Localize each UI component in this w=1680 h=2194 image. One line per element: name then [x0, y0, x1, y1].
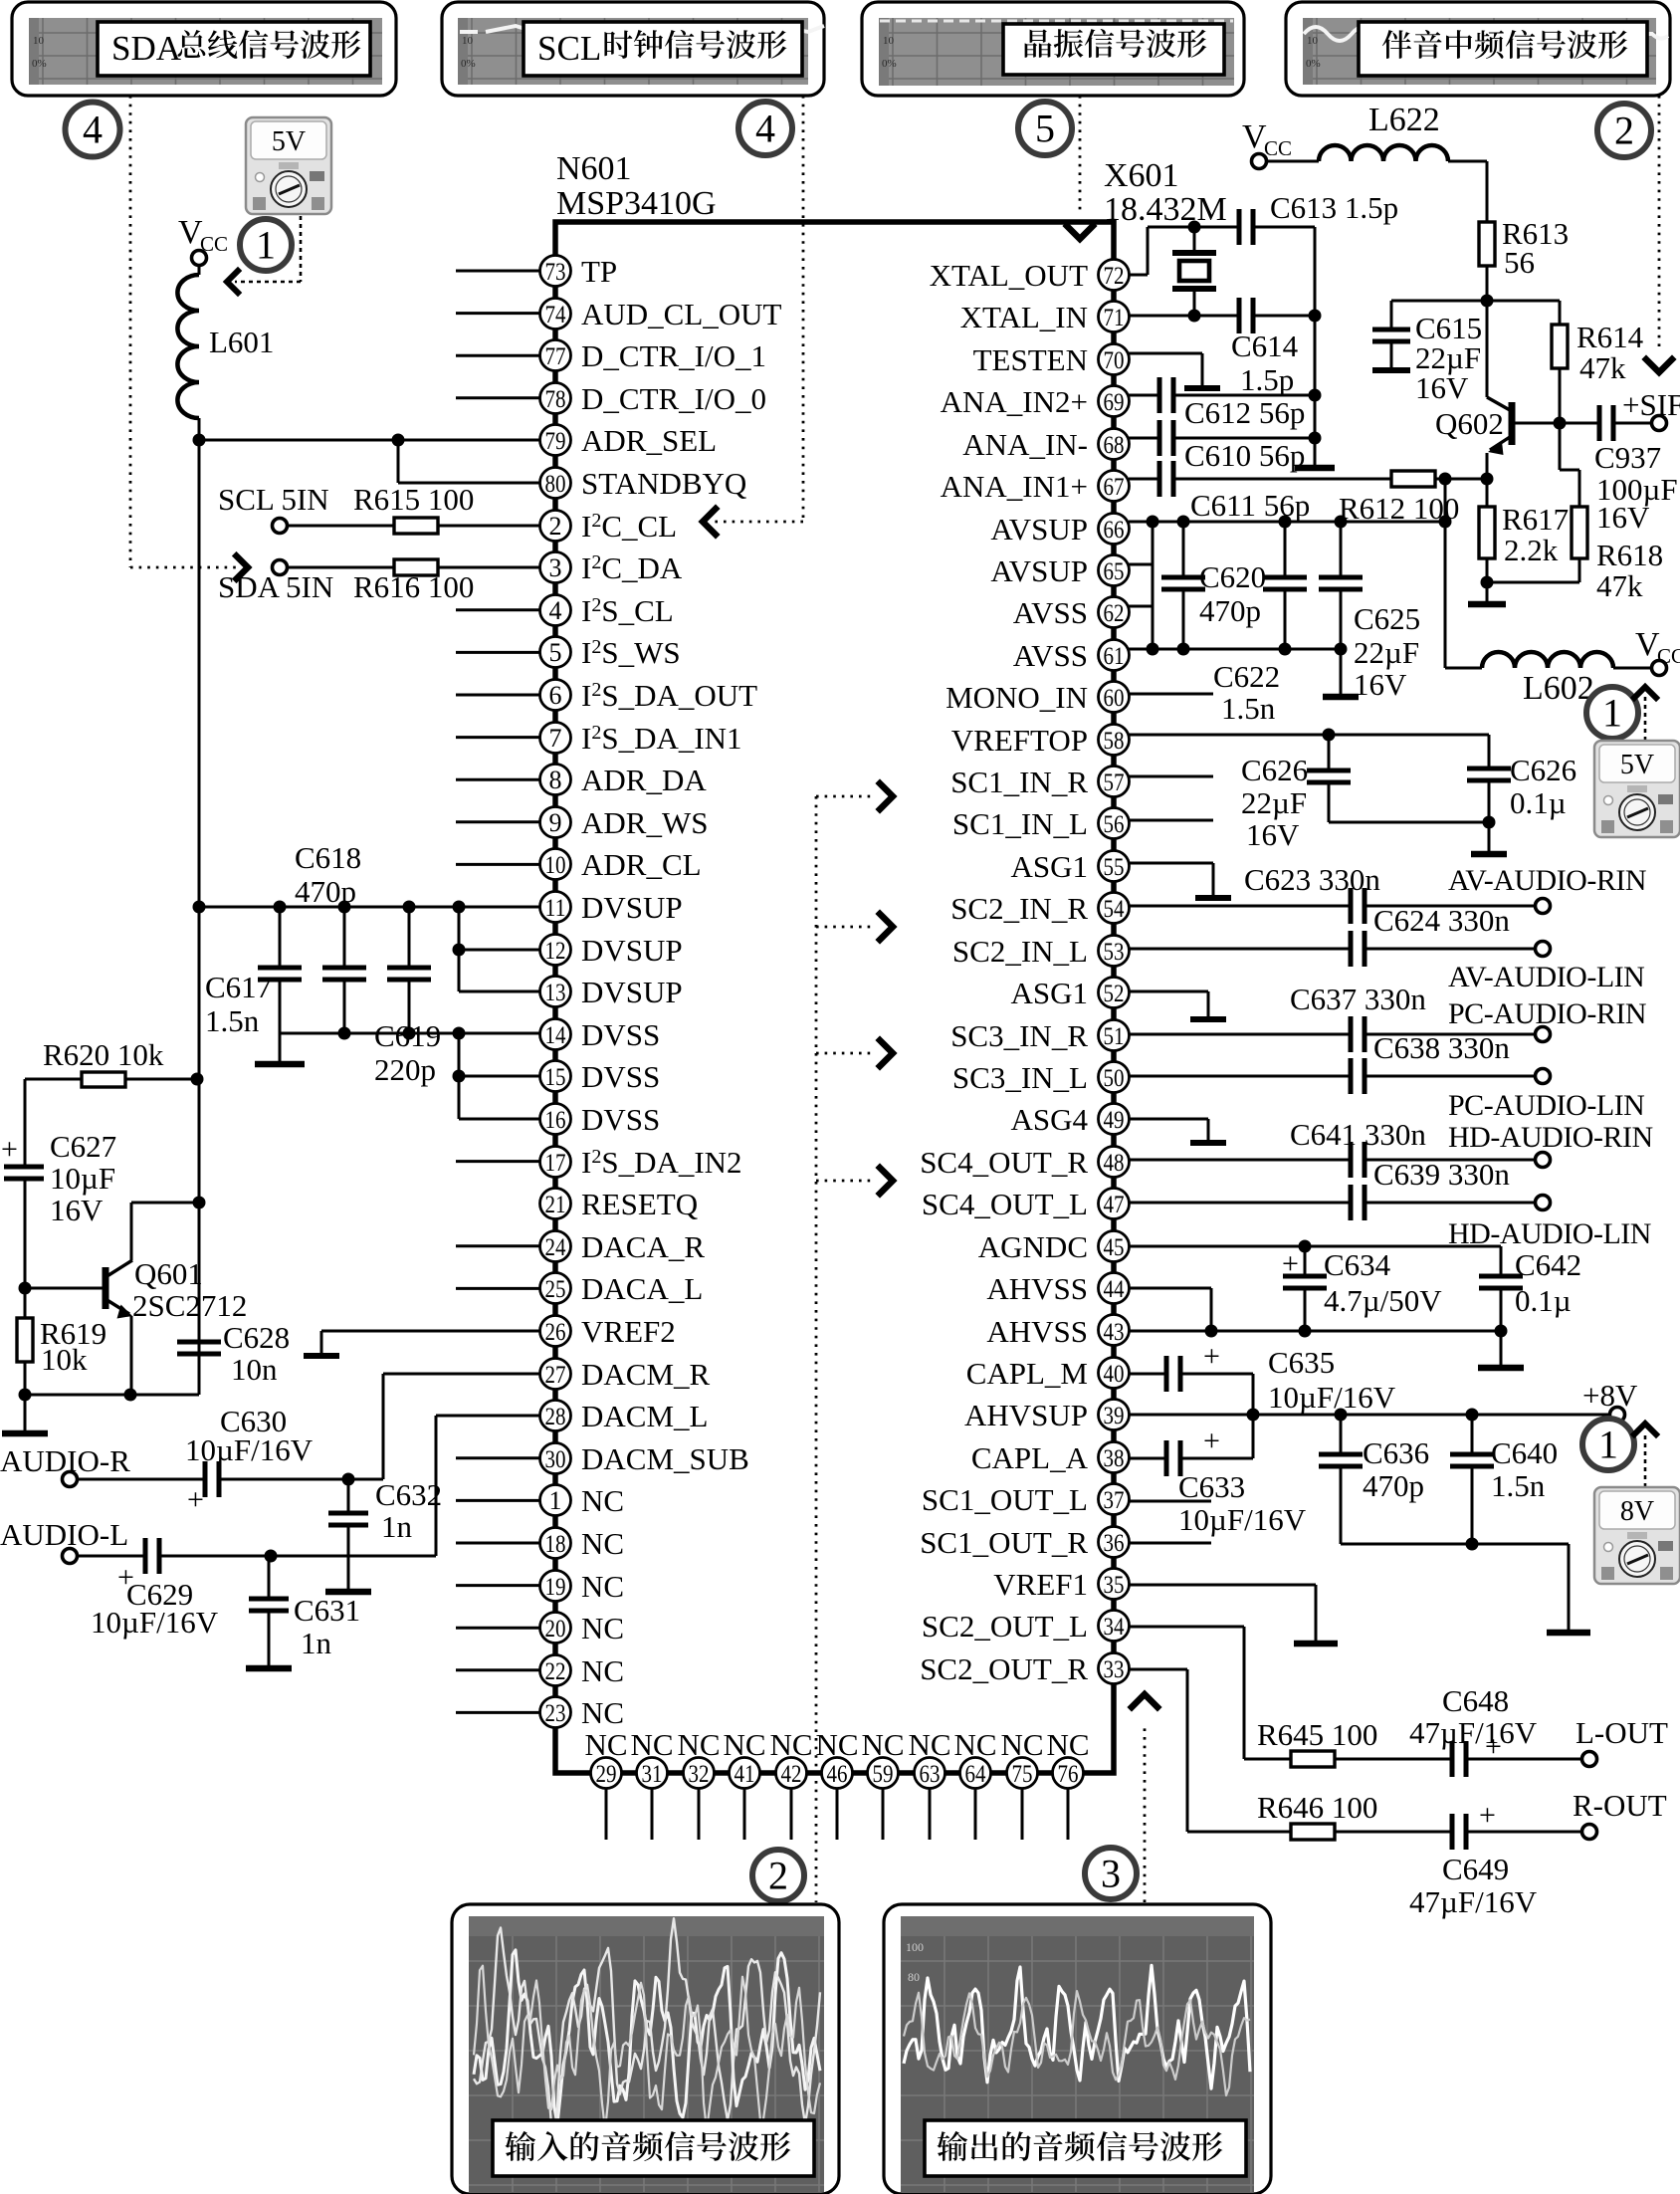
pin 3 I2C_DA (left) — [540, 550, 683, 585]
capacitor C649 47uF/16V (polarized) — [1409, 1799, 1581, 1919]
svg-text:SC1_IN_L: SC1_IN_L — [952, 806, 1088, 841]
capacitor C632 1n — [325, 1477, 442, 1592]
svg-text:17: 17 — [545, 1150, 566, 1177]
wire: left bias column — [24, 1079, 27, 1167]
capacitor C638 330n — [1129, 1030, 1535, 1094]
pin 72 XTAL_OUT (right) — [930, 258, 1130, 293]
svg-text:45: 45 — [1104, 1234, 1125, 1261]
svg-text:C640: C640 — [1491, 1435, 1558, 1470]
svg-text:I2S_DA_IN1: I2S_DA_IN1 — [581, 721, 742, 756]
svg-text:31: 31 — [642, 1761, 663, 1788]
svg-text:16V: 16V — [1415, 370, 1469, 405]
svg-text:56: 56 — [1104, 811, 1125, 838]
output terminal AV-AUDIO-RIN — [1448, 864, 1646, 914]
svg-text:70: 70 — [1104, 347, 1125, 374]
svg-text:16: 16 — [545, 1107, 566, 1134]
svg-text:AVSUP: AVSUP — [990, 512, 1088, 547]
svg-text:SC3_IN_R: SC3_IN_R — [950, 1018, 1088, 1053]
pin 79 ADR_SEL (left) — [540, 423, 718, 458]
svg-text:STANDBYQ: STANDBYQ — [581, 466, 746, 501]
svg-text:5V: 5V — [1620, 750, 1654, 780]
svg-text:5: 5 — [1035, 107, 1055, 151]
svg-text:NC: NC — [1046, 1727, 1089, 1762]
svg-text:ASG4: ASG4 — [1010, 1102, 1088, 1137]
svg-text:NC: NC — [581, 1569, 624, 1604]
svg-text:15: 15 — [545, 1064, 566, 1091]
capacitor C639 330n — [1129, 1157, 1535, 1220]
svg-text:22: 22 — [545, 1658, 566, 1685]
callout number 1 (8V meter) — [1582, 1419, 1634, 1470]
svg-text:C623 330n: C623 330n — [1244, 862, 1380, 897]
svg-text:I2S_DA_OUT: I2S_DA_OUT — [581, 678, 757, 713]
resistor R616 100 — [288, 559, 539, 604]
pin 41 NC (bottom) — [723, 1727, 765, 1840]
svg-text:68: 68 — [1104, 432, 1125, 459]
svg-text:72: 72 — [1104, 263, 1125, 290]
svg-text:1n: 1n — [381, 1509, 413, 1544]
pin 43 AHVSS (right) — [986, 1314, 1129, 1349]
pin 2 I2C_CL (left) — [540, 509, 678, 544]
svg-text:+: + — [1479, 1799, 1496, 1832]
svg-text:R645 100: R645 100 — [1257, 1717, 1377, 1752]
wire: pin 56 stub — [1129, 819, 1213, 822]
pin 63 NC (bottom) — [908, 1727, 950, 1840]
svg-text:RESETQ: RESETQ — [581, 1187, 698, 1221]
svg-text:47k: 47k — [1579, 350, 1626, 385]
callout number 5 (crystal scope) — [1018, 102, 1072, 155]
ground (Q602 emitter) — [1468, 582, 1506, 604]
svg-text:C633: C633 — [1178, 1469, 1245, 1504]
wire: pin 34 SC2_OUT_L to output filter — [1129, 1627, 1291, 1759]
wire: to pin 27 DACM_R — [383, 1374, 539, 1479]
pin 74 AUD_CL_OUT (left) — [456, 297, 782, 331]
wire: pin 66 AVSUP row — [1129, 516, 1452, 529]
svg-text:63: 63 — [920, 1761, 941, 1788]
svg-text:D_CTR_I/O_1: D_CTR_I/O_1 — [581, 338, 766, 373]
svg-text:CC: CC — [1657, 644, 1680, 668]
svg-text:1.5p: 1.5p — [1240, 362, 1294, 397]
svg-text:52: 52 — [1104, 981, 1125, 1007]
svg-text:C626: C626 — [1241, 753, 1308, 787]
svg-text:+: + — [1203, 1340, 1220, 1373]
svg-text:MSP3410G: MSP3410G — [556, 185, 717, 222]
svg-text:12: 12 — [545, 938, 566, 965]
svg-text:NC: NC — [677, 1727, 720, 1762]
resistor R612 100 — [1339, 471, 1487, 526]
wire+ground: C636/C640 bottoms — [1341, 1538, 1590, 1634]
pin 46 NC (bottom) — [815, 1727, 858, 1840]
svg-text:40: 40 — [1104, 1361, 1125, 1388]
svg-text:0.1µ: 0.1µ — [1510, 785, 1567, 820]
callout number 2 (SIF scope) — [1597, 104, 1651, 157]
pin 17 I2S_DA_IN2 (left) — [456, 1145, 742, 1180]
svg-text:10: 10 — [545, 852, 566, 879]
svg-text:76: 76 — [1058, 1761, 1079, 1788]
svg-text:26: 26 — [545, 1319, 566, 1346]
capacitor C628 10n — [177, 1320, 290, 1395]
capacitor C642 0.1u — [1479, 1246, 1581, 1331]
pin 25 DACA_L (left) — [456, 1271, 703, 1306]
svg-text:NC: NC — [769, 1727, 812, 1762]
svg-text:SC2_IN_L: SC2_IN_L — [952, 934, 1088, 969]
input terminal SCL 5IN — [218, 482, 329, 534]
Vcc supply terminal (top left) — [178, 214, 228, 266]
pin 50 SC3_IN_L (right) — [952, 1060, 1130, 1095]
svg-text:R616 100: R616 100 — [353, 569, 474, 604]
svg-text:2: 2 — [768, 1854, 788, 1898]
inductor L601 — [177, 265, 274, 418]
svg-text:+8V: +8V — [1582, 1378, 1638, 1413]
svg-text:VREF1: VREF1 — [993, 1567, 1088, 1602]
svg-text:C628: C628 — [223, 1320, 290, 1355]
svg-text:AGNDC: AGNDC — [978, 1229, 1088, 1264]
svg-text:65: 65 — [1104, 558, 1125, 585]
svg-text:C636: C636 — [1363, 1435, 1429, 1470]
svg-text:C627: C627 — [50, 1129, 116, 1164]
svg-text:DVSUP: DVSUP — [581, 890, 683, 925]
svg-text:ADR_DA: ADR_DA — [581, 763, 707, 797]
capacitor C620 470p — [1161, 522, 1266, 649]
svg-text:NC: NC — [584, 1727, 627, 1762]
svg-text:20: 20 — [545, 1616, 566, 1643]
svg-text:10µF/16V: 10µF/16V — [1268, 1380, 1396, 1415]
svg-text:32: 32 — [689, 1761, 710, 1788]
wire: pin 39 AHVSUP to +8V — [1129, 1409, 1609, 1422]
svg-text:67: 67 — [1104, 474, 1125, 501]
svg-text:R646 100: R646 100 — [1257, 1790, 1377, 1825]
svg-text:9: 9 — [549, 808, 562, 837]
svg-text:C637 330n: C637 330n — [1290, 982, 1426, 1016]
svg-text:L-OUT: L-OUT — [1575, 1715, 1668, 1750]
svg-text:C613 1.5p: C613 1.5p — [1270, 190, 1398, 225]
pin 78 D_CTR_I/O_0 (left) — [456, 381, 766, 416]
svg-text:59: 59 — [873, 1761, 894, 1788]
pin 24 DACA_R (left) — [456, 1229, 705, 1264]
svg-text:470p: 470p — [1363, 1468, 1424, 1503]
svg-text:R620 10k: R620 10k — [43, 1037, 164, 1072]
pin 75 NC (bottom) — [1000, 1727, 1043, 1840]
capacitor C618 470p — [295, 840, 366, 1033]
svg-text:4: 4 — [549, 596, 562, 625]
svg-text:47µF/16V: 47µF/16V — [1409, 1884, 1538, 1919]
svg-text:0%: 0% — [32, 58, 47, 70]
svg-text:DVSS: DVSS — [581, 1059, 660, 1094]
svg-text:73: 73 — [545, 259, 566, 286]
resistor R619 10k — [17, 1288, 106, 1395]
output terminal HD-AUDIO-LIN — [1448, 1196, 1651, 1251]
svg-text:4: 4 — [83, 108, 103, 152]
svg-text:11: 11 — [545, 895, 566, 922]
resistor R620 10k — [25, 1037, 204, 1087]
svg-text:PC-AUDIO-RIN: PC-AUDIO-RIN — [1448, 997, 1646, 1030]
svg-text:AV-AUDIO-LIN: AV-AUDIO-LIN — [1448, 961, 1644, 993]
resistor R645 100 — [1257, 1717, 1452, 1767]
wire: R612 node to L602 — [1445, 479, 1482, 668]
svg-text:8: 8 — [549, 766, 562, 794]
svg-text:18.432M: 18.432M — [1104, 191, 1227, 228]
pin 65 AVSUP (right) — [990, 553, 1129, 588]
svg-text:10µF/16V: 10µF/16V — [1178, 1502, 1307, 1537]
svg-text:NC: NC — [581, 1695, 624, 1730]
svg-text:AVSS: AVSS — [1013, 638, 1088, 673]
wire: pin 62 stub — [1129, 605, 1153, 608]
svg-text:AHVSUP: AHVSUP — [964, 1398, 1088, 1432]
pin 14 DVSS (left) — [540, 1017, 661, 1052]
svg-text:34: 34 — [1104, 1614, 1125, 1641]
output terminal PC-AUDIO-LIN — [1448, 1069, 1644, 1123]
callout number 1 (5V meter) — [240, 219, 292, 271]
svg-text:C624 330n: C624 330n — [1373, 903, 1510, 938]
resistor R646 100 — [1257, 1790, 1452, 1840]
svg-text:R618: R618 — [1596, 538, 1663, 572]
wire: pin 58 VREFTOP row — [1129, 729, 1489, 742]
wire: pin 45 AGNDC row — [1129, 1240, 1501, 1253]
pin 34 SC2_OUT_L (right) — [922, 1609, 1130, 1644]
svg-text:C632: C632 — [375, 1477, 442, 1512]
svg-text:C649: C649 — [1442, 1852, 1509, 1886]
svg-text:DVSS: DVSS — [581, 1102, 660, 1137]
pin 7 I2S_DA_IN1 (left) — [456, 721, 742, 756]
svg-text:53: 53 — [1104, 939, 1125, 966]
capacitor C635 10uF/16V (polarized) — [1129, 1340, 1396, 1415]
oscilloscope thumbnail crystal waveform — [862, 2, 1244, 96]
svg-text:61: 61 — [1104, 643, 1125, 670]
svg-text:41: 41 — [735, 1761, 755, 1788]
pin 73 TP (left) — [456, 254, 617, 289]
pin 51 SC3_IN_R (right) — [950, 1018, 1129, 1053]
svg-text:AHVSS: AHVSS — [986, 1314, 1088, 1349]
output terminal R-OUT — [1573, 1788, 1667, 1840]
svg-text:470p: 470p — [1199, 593, 1261, 628]
pin 59 NC (bottom) — [861, 1727, 904, 1840]
svg-text:220p: 220p — [374, 1052, 436, 1087]
svg-text:+: + — [1282, 1247, 1299, 1280]
svg-text:8V: 8V — [1620, 1496, 1654, 1527]
pin 22 NC (left) — [456, 1653, 624, 1688]
svg-text:1: 1 — [1602, 691, 1622, 736]
capacitor C614 1.5p — [1231, 298, 1315, 397]
resistor R618 47k — [1487, 423, 1663, 603]
inductor L602 — [1482, 652, 1651, 707]
svg-text:R614: R614 — [1576, 320, 1644, 354]
capacitor C648 47uF/16V (polarized) — [1409, 1683, 1581, 1777]
svg-text:TESTEN: TESTEN — [973, 342, 1088, 377]
svg-text:L622: L622 — [1368, 102, 1440, 138]
capacitor C610 56p — [1129, 420, 1315, 473]
svg-text:16V: 16V — [50, 1193, 104, 1227]
wire: pin 61 AVSS row — [1129, 643, 1341, 656]
resistor R614 47k — [1487, 301, 1644, 423]
svg-text:54: 54 — [1104, 896, 1125, 923]
svg-text:80: 80 — [545, 471, 566, 498]
svg-text:ADR_SEL: ADR_SEL — [581, 423, 717, 458]
svg-text:42: 42 — [781, 1761, 802, 1788]
wire: DVSS row pin 14 — [280, 1027, 539, 1040]
svg-text:R-OUT: R-OUT — [1573, 1788, 1667, 1823]
ground (C642 column) — [1478, 1331, 1524, 1368]
svg-text:10: 10 — [462, 35, 474, 47]
pin 66 AVSUP (right) — [990, 512, 1129, 547]
pin 32 NC (bottom) — [677, 1727, 720, 1840]
wire: pin 37 stub — [1129, 1500, 1211, 1503]
svg-text:SC2_OUT_L: SC2_OUT_L — [922, 1609, 1088, 1644]
capacitor C623 330n — [1129, 862, 1535, 924]
pin 70 TESTEN (right) — [973, 342, 1130, 377]
svg-text:39: 39 — [1104, 1403, 1125, 1429]
svg-text:NC: NC — [581, 1526, 624, 1561]
svg-text:C638 330n: C638 330n — [1373, 1030, 1510, 1065]
svg-text:1.5n: 1.5n — [1221, 691, 1276, 726]
wire: pin 44 AHVSS — [1129, 1288, 1211, 1331]
pin 36 SC1_OUT_R (right) — [920, 1525, 1129, 1560]
pin 23 NC (left) — [456, 1695, 624, 1730]
svg-text:+: + — [1203, 1425, 1220, 1457]
pin 28 DACM_L (left) — [540, 1399, 709, 1433]
svg-text:1: 1 — [1598, 1423, 1618, 1467]
ground (left bias column) — [2, 1395, 48, 1433]
wire: pin 60 MONO_IN stub — [1129, 693, 1213, 696]
pin 11 DVSUP (left) — [540, 890, 683, 925]
svg-text:SC1_OUT_L: SC1_OUT_L — [922, 1482, 1088, 1517]
svg-text:10µF/16V: 10µF/16V — [185, 1432, 314, 1467]
svg-text:78: 78 — [545, 386, 566, 413]
svg-text:NC: NC — [1000, 1727, 1043, 1762]
svg-text:25: 25 — [545, 1276, 566, 1303]
svg-text:NC: NC — [581, 1653, 624, 1688]
pin 15 DVSS (left) — [540, 1059, 661, 1094]
svg-text:0%: 0% — [882, 58, 897, 70]
svg-text:L601: L601 — [209, 325, 274, 359]
svg-text:64: 64 — [965, 1761, 986, 1788]
svg-text:3: 3 — [1101, 1852, 1121, 1896]
svg-text:37: 37 — [1104, 1487, 1125, 1514]
svg-text:AVSS: AVSS — [1013, 595, 1088, 630]
pin 26 VREF2 (left) — [540, 1314, 676, 1349]
svg-text:1n: 1n — [301, 1626, 332, 1660]
svg-text:2.2k: 2.2k — [1504, 533, 1559, 567]
capacitor C631 1n — [246, 1556, 360, 1668]
pin 13 DVSUP (left) — [540, 975, 683, 1009]
svg-text:23: 23 — [545, 1700, 566, 1727]
svg-text:10: 10 — [1307, 35, 1319, 47]
svg-text:SCL 5IN: SCL 5IN — [218, 482, 329, 517]
svg-text:10µF: 10µF — [50, 1161, 115, 1196]
pin 58 VREFTOP (right) — [951, 723, 1130, 758]
svg-text:I2S_DA_IN2: I2S_DA_IN2 — [581, 1145, 742, 1180]
svg-text:C639 330n: C639 330n — [1373, 1157, 1510, 1192]
Vcc supply terminal (top middle) — [1242, 118, 1292, 169]
svg-text:DVSUP: DVSUP — [581, 975, 683, 1009]
capacitor C612 56p — [1129, 377, 1315, 430]
svg-text:2: 2 — [549, 512, 562, 541]
svg-text:HD-AUDIO-RIN: HD-AUDIO-RIN — [1448, 1121, 1653, 1154]
svg-text:AV-AUDIO-RIN: AV-AUDIO-RIN — [1448, 864, 1646, 897]
svg-text:SC3_IN_L: SC3_IN_L — [952, 1060, 1088, 1095]
pin 19 NC (left) — [456, 1569, 624, 1604]
svg-text:Q602: Q602 — [1435, 406, 1504, 441]
IC N601 MSP3410G body — [555, 222, 1114, 1773]
capacitor C611 56p — [1129, 461, 1391, 523]
capacitor C640 1.5n — [1450, 1415, 1558, 1544]
svg-text:NC: NC — [861, 1727, 904, 1762]
svg-text:C620: C620 — [1199, 559, 1266, 594]
oscilloscope thumbnail SIF waveform — [1286, 2, 1670, 96]
pin 60 MONO_IN (right) — [945, 680, 1129, 715]
svg-text:DACM_R: DACM_R — [581, 1357, 711, 1392]
pin 42 NC (bottom) — [769, 1727, 812, 1840]
svg-text:C622: C622 — [1213, 659, 1280, 694]
pin 53 SC2_IN_L (right) — [952, 934, 1130, 969]
svg-text:470p: 470p — [295, 874, 356, 909]
svg-text:29: 29 — [596, 1761, 617, 1788]
pin 67 ANA_IN1+ (right) — [941, 469, 1130, 504]
svg-text:49: 49 — [1104, 1107, 1125, 1134]
svg-text:Q601: Q601 — [134, 1256, 203, 1291]
svg-text:47: 47 — [1104, 1192, 1125, 1218]
svg-text:3: 3 — [549, 553, 562, 582]
wire: DVSS tie to pins 15,16 — [453, 1033, 540, 1119]
pin 10 ADR_CL (left) — [456, 847, 702, 882]
pin 69 ANA_IN2+ (right) — [941, 384, 1130, 419]
svg-text:ADR_CL: ADR_CL — [581, 847, 702, 882]
pin 9 ADR_WS (left) — [456, 805, 708, 840]
pin 44 AHVSS (right) — [986, 1271, 1129, 1306]
5V voltmeter (right) — [1594, 741, 1680, 837]
capacitor C619 220p — [374, 907, 441, 1087]
resistor R613 56 — [1479, 161, 1569, 301]
svg-text:NC: NC — [723, 1727, 765, 1762]
oscilloscope photo: input audio waveform — [452, 1904, 839, 2194]
wire+ground: C626 pair bottoms — [1329, 816, 1507, 855]
dotted probe bus to SC pins and input waveform scope — [816, 783, 893, 1902]
capacitor C625 22uF 16V — [1319, 522, 1420, 702]
pin 77 D_CTR_I/O_1 (left) — [456, 338, 766, 373]
pin 37 SC1_OUT_L (right) — [922, 1482, 1130, 1517]
pin 39 AHVSUP (right) — [964, 1398, 1130, 1432]
svg-text:2SC2712: 2SC2712 — [132, 1288, 247, 1323]
svg-text:C626: C626 — [1510, 753, 1576, 787]
capacitor C629 10uF/16V (polarized) — [78, 1538, 436, 1640]
svg-text:C617: C617 — [205, 970, 272, 1004]
svg-text:48: 48 — [1104, 1150, 1125, 1177]
svg-text:0%: 0% — [1306, 58, 1321, 70]
svg-text:DVSUP: DVSUP — [581, 933, 683, 968]
svg-text:SC4_OUT_R: SC4_OUT_R — [920, 1145, 1088, 1180]
svg-text:46: 46 — [827, 1761, 848, 1788]
wire: pin 72 XTAL_OUT to crystal node — [1129, 221, 1237, 276]
svg-text:16V: 16V — [1246, 817, 1300, 852]
capacitor C617 1.5n — [205, 907, 302, 1038]
wire: oscillator ground column x=1321 — [1309, 227, 1322, 465]
svg-text:DACM_L: DACM_L — [581, 1399, 708, 1433]
svg-text:100: 100 — [906, 1940, 924, 1954]
ground (C617 column) — [255, 1033, 305, 1064]
pin 31 NC (bottom) — [630, 1727, 673, 1840]
svg-text:16V: 16V — [1596, 500, 1650, 535]
wire+ground: pin 49 ASG4 — [1129, 1119, 1226, 1143]
svg-text:57: 57 — [1104, 769, 1125, 796]
svg-text:VREFTOP: VREFTOP — [951, 723, 1088, 758]
svg-text:36: 36 — [1104, 1530, 1125, 1557]
svg-text:R617: R617 — [1502, 502, 1569, 537]
svg-text:ANA_IN2+: ANA_IN2+ — [941, 384, 1088, 419]
svg-text:ANA_IN1+: ANA_IN1+ — [941, 469, 1088, 504]
resistor R615 100 — [288, 482, 539, 534]
dotted probe line from output scope to SC2_OUT_R — [1132, 1694, 1157, 1902]
pin 76 NC (bottom) — [1046, 1727, 1089, 1840]
Vcc supply terminal (right, L602) — [1635, 626, 1680, 676]
svg-text:47k: 47k — [1596, 568, 1643, 603]
